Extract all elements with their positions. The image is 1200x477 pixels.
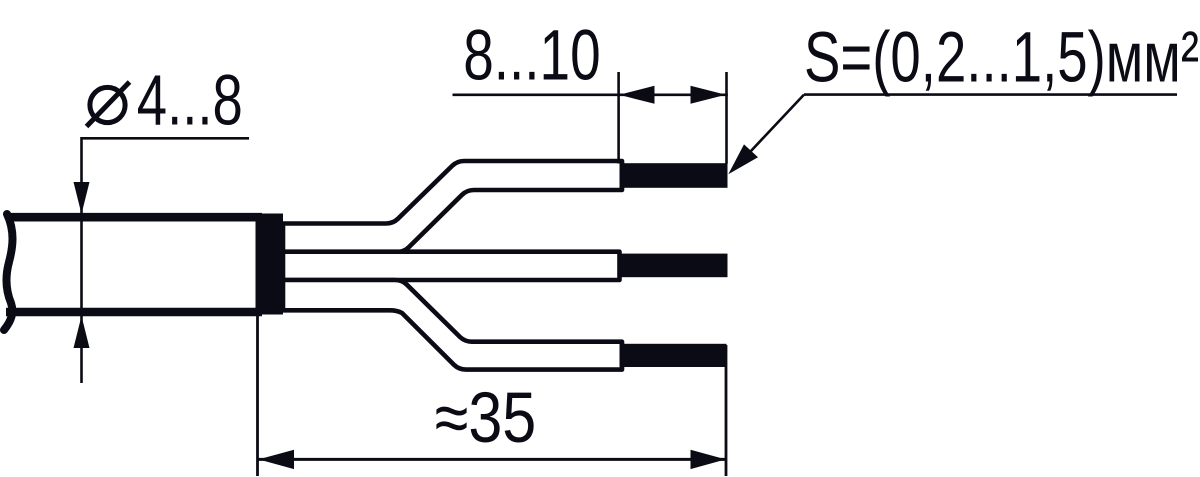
diameter dimension top arrowhead (points down to cable top) bbox=[74, 182, 90, 214]
overall length dimension line bbox=[258, 458, 727, 461]
cable bottom edge bbox=[6, 308, 262, 317]
strip-length dimension line bbox=[453, 94, 728, 97]
diameter dimension vertical line bbox=[80, 137, 83, 383]
middle wire stripped conductor tip bbox=[620, 254, 728, 278]
strip-length right arrowhead (points right) bbox=[691, 86, 726, 104]
cable top edge bbox=[6, 213, 262, 222]
strip-length left extension line bbox=[617, 72, 620, 164]
diameter dimension leader horizontal line bbox=[82, 137, 250, 140]
svg-text:8...10: 8...10 bbox=[463, 16, 601, 96]
cable left break line bbox=[4, 214, 13, 330]
top wire (insulation outline) bbox=[283, 161, 622, 252]
wire cross-section leader arrowhead (points to top wire tip) bbox=[728, 144, 758, 174]
cable jacket body (white fill) bbox=[8, 217, 258, 312]
diameter dimension bottom arrowhead (points up to cable bottom) bbox=[74, 316, 90, 348]
top wire stripped conductor tip bbox=[620, 163, 728, 188]
overall length left extension line bbox=[256, 316, 259, 476]
bottom wire stripped conductor tip bbox=[620, 344, 727, 367]
svg-text:S=(0,2...1,5)мм²: S=(0,2...1,5)мм² bbox=[804, 17, 1199, 97]
bottom wire (insulation outline) bbox=[283, 280, 622, 370]
wire cross-section leader diagonal line bbox=[750, 95, 804, 152]
svg-text:4...8: 4...8 bbox=[137, 61, 243, 141]
cable end black band bbox=[256, 214, 284, 315]
strip-length right extension line bbox=[725, 72, 728, 164]
diameter label text bbox=[87, 61, 243, 141]
middle wire (insulation outline) bbox=[283, 252, 620, 280]
strip-length left arrowhead (points left) bbox=[619, 86, 654, 104]
wire cross-section leader horizontal line bbox=[804, 93, 1177, 96]
svg-text:≈35: ≈35 bbox=[435, 378, 537, 458]
overall length left arrowhead (points left) bbox=[259, 450, 294, 469]
overall length right extension line bbox=[725, 345, 728, 476]
overall length right arrowhead (points right) bbox=[691, 450, 726, 469]
